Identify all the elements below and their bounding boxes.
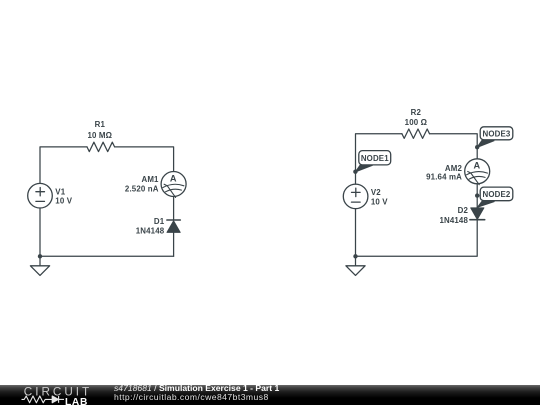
svg-text:D1: D1: [154, 217, 165, 226]
svg-text:100 Ω: 100 Ω: [405, 118, 427, 127]
svg-text:NODE3: NODE3: [483, 129, 511, 138]
wire: AM1 bottom to D1 cathode: [173, 197, 175, 221]
svg-text:D2: D2: [458, 206, 469, 215]
node NODE2 junction dot: [475, 193, 479, 197]
svg-text:1N4148: 1N4148: [136, 226, 165, 235]
ammeter AM2: [465, 159, 490, 185]
wire: V2 top up and across to R2 left terminal: [356, 134, 402, 184]
svg-text:91.64 mA: 91.64 mA: [426, 173, 462, 182]
wire: NODE3 to AM2 top: [476, 147, 478, 159]
node flag NODE2: [477, 187, 512, 207]
svg-text:AM2: AM2: [445, 164, 463, 173]
voltage source V1: [28, 183, 53, 208]
svg-text:A: A: [474, 161, 481, 171]
wire: AM2 bottom to node NODE2: [476, 184, 478, 196]
svg-text:R2: R2: [411, 108, 422, 117]
svg-text:10 V: 10 V: [55, 197, 72, 206]
svg-text:LAB: LAB: [65, 397, 88, 405]
wire: D2 cathode down and across bottom rail to V2: [356, 220, 478, 257]
wire: bottom rail of left circuit: [40, 255, 174, 257]
svg-text:http://circuitlab.com/cwe847bt: http://circuitlab.com/cwe847bt3mus8: [114, 392, 269, 402]
diode D2 (1N4148, pointing down): [470, 208, 485, 220]
ground (right): [346, 256, 365, 275]
labels left circuit: [55, 120, 177, 235]
wire: R2 right terminal across and down to node NODE3: [430, 134, 478, 148]
wire: NODE2 to D2 anode: [476, 196, 478, 208]
svg-text:V1: V1: [55, 188, 65, 197]
svg-text:R1: R1: [95, 120, 106, 129]
svg-text:10 MΩ: 10 MΩ: [87, 131, 112, 140]
logo resistor-diode glyph: [22, 396, 65, 403]
node NODE3 junction dot: [475, 145, 479, 149]
ground (left): [30, 256, 49, 275]
svg-text:1N4148: 1N4148: [439, 216, 468, 225]
voltage source V2: [343, 184, 368, 209]
wire: R1 right terminal to AM1 top: [115, 147, 174, 172]
wire: V1 bottom to bottom rail: [39, 208, 41, 256]
resistor R2: [402, 129, 430, 138]
wire: D1 anode down to bottom rail: [173, 232, 175, 256]
node flag NODE1: [353, 151, 391, 174]
svg-text:10 V: 10 V: [371, 197, 388, 206]
footer bar: [0, 385, 540, 405]
labels right circuit: [371, 108, 481, 225]
diode D1 (1N4148, pointing up): [167, 220, 180, 232]
svg-text:NODE1: NODE1: [361, 154, 389, 163]
wire: V2 bottom to bottom rail: [355, 209, 357, 257]
wire: V1 top up and across to R1 left terminal: [40, 147, 87, 184]
svg-text:V2: V2: [371, 188, 381, 197]
svg-text:A: A: [170, 173, 177, 183]
junction node bottom of V2: [353, 254, 357, 258]
junction node (left bottom): [38, 254, 42, 258]
ammeter AM1: [161, 172, 186, 198]
svg-text:NODE2: NODE2: [483, 190, 511, 199]
resistor R1: [87, 142, 115, 151]
node flag NODE3: [477, 127, 513, 148]
svg-text:AM1: AM1: [141, 175, 159, 184]
svg-text:2.520 nA: 2.520 nA: [125, 185, 159, 194]
